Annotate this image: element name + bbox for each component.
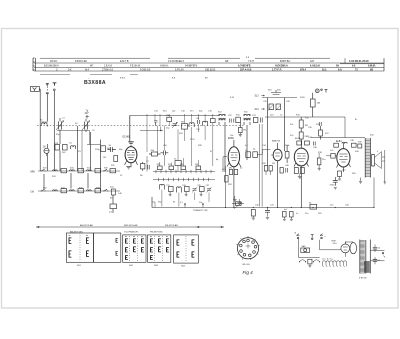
svg-text:Fig 4: Fig 4 [243,270,254,275]
switch cluster lower box B [185,187,190,192]
svg-text:C4: C4 [69,143,72,145]
oscillator coil S10 [189,123,194,127]
svg-text:2758K:6:5: 2758K:6:5 [102,69,114,72]
svg-text:C37: C37 [206,185,211,187]
svg-text:50: 50 [109,145,112,147]
B+ rail from OT down [373,178,375,208]
S14 label with arrow [255,108,265,111]
switch cluster lower box C [200,187,205,192]
dial scale tick text row 3 [56,69,373,72]
svg-text:S64: S64 [181,266,186,268]
svg-text:R15: R15 [305,118,310,120]
OT tap ground [359,178,362,184]
svg-text:25n: 25n [305,213,308,215]
svg-text:C16: C16 [181,111,186,113]
svg-text:C7: C7 [146,161,149,163]
svg-text:A: A [295,232,297,235]
V2 grid vertical wire [223,157,227,207]
svg-text:R1: R1 [78,151,81,153]
svg-text:M:4: M:4 [85,69,90,72]
V2 to V3 coupling wire [257,150,273,155]
bus left drop [151,197,153,208]
coil detail box S62 (sparse) [94,233,121,262]
terminal mark right of lamp [325,89,328,92]
AVC resistor chain right [299,117,309,141]
mains input outline box [298,239,341,257]
components right of IFT1 [254,118,263,123]
coil detail box S64 [148,235,171,267]
tuning capacitor C2 (variable, arrow) [82,119,90,132]
svg-text:8.8: 8.8 [172,78,176,80]
RF cluster resistor R2 [62,145,67,155]
switch cluster box 4 [181,166,186,170]
svg-text:C30: C30 [308,127,313,129]
tube V2 EF89 envelope [227,137,241,207]
tube V3 EABC80 (small) [273,143,282,207]
V3 load boxes [264,166,272,176]
wire x90 vertical [90,132,92,171]
AM antenna terminal (ground-like symbol) [46,83,49,93]
svg-text:S17: S17 [190,111,194,113]
mains switch arcs [299,259,320,267]
svg-text:S2: S2 [75,123,78,125]
trimmer capacitor above C2 [86,115,89,119]
svg-text:B3X88A: B3X88A [84,80,106,86]
svg-text:a: a [325,236,327,238]
svg-text:C34: C34 [262,145,267,147]
svg-text:25n: 25n [322,159,325,161]
small parts below bus near x285 [283,212,294,221]
band switch row MW wire [38,170,120,172]
svg-text:C2: C2 [92,130,95,132]
heater wiring loops [322,258,347,266]
switch cluster lower coil 2 [177,187,182,193]
B+ arrow terminals [382,251,385,261]
band switch row LW wire [38,190,120,192]
tube socket diagram (fig 4) [236,236,259,260]
svg-text:R26: R26 [262,163,267,165]
svg-text:9:B.B.K:E8: 9:B.B.K:E8 [75,60,87,63]
wire from dipole box down [38,89,41,171]
svg-text:7:F:H: 7:F:H [248,60,254,63]
osc feedback component box [174,159,181,166]
svg-text:68p: 68p [119,149,123,151]
svg-text:1M: 1M [103,157,106,159]
switch cluster lower trimmer 2 [207,187,212,192]
MW row box S3 [61,169,67,173]
grid leak resistor R4 vertical [111,156,118,168]
svg-text:1N: 1N [43,147,46,149]
svg-text:EABC80: EABC80 [272,140,281,143]
MW row switch contact 2 [103,169,108,171]
svg-text:S12: S12 [218,112,222,114]
svg-text:220: 220 [270,115,274,117]
svg-text:220p: 220p [95,149,100,151]
svg-text:S16: S16 [244,112,248,114]
ferrite rod / diode circle D1 [43,147,50,157]
IFT1 second coil pair [243,114,251,125]
svg-text:1n: 1n [280,115,282,117]
V5 cathode bypass cap 4700 [330,177,338,190]
T antenna terminal [53,83,57,91]
LW row switch contact 2 [103,189,108,191]
svg-text:R24: R24 [228,184,233,186]
svg-text:TRIMKETT. FM: TRIMKETT. FM [193,210,208,212]
wire from T terminal down [53,91,55,171]
osc mid vertical wires [147,114,213,172]
svg-text:AB:: AB: [225,60,229,63]
svg-text:S41: S41 [110,187,114,189]
switch cluster contact ticks rail1 [156,170,211,173]
svg-text:93E.B2:B:: 93E.B2:B: [205,69,216,72]
svg-text:C22: C22 [228,115,233,117]
AVC narrow pair vertical [260,124,263,207]
svg-text:LW: LW [31,190,35,193]
RF coil S2 [71,146,76,149]
coupling box before V5 [326,154,337,159]
svg-text:B:3:: B:3: [322,69,327,72]
svg-text:5H: 5H [336,65,339,68]
svg-text:2:K.B.89KEE:3: 2:K.B.89KEE:3 [168,60,185,63]
capacitor C8 near tube base [148,165,150,171]
svg-text:S15: S15 [163,111,167,113]
cathode resistor R7 [141,162,145,171]
svg-text:R18: R18 [318,152,323,154]
bus junction dots [225,207,375,208]
coil detail box S65 (sparse) [174,235,199,268]
tube labels row [272,138,301,143]
svg-text:S18: S18 [179,133,183,135]
dimension arrow line over coil boxes [36,224,224,228]
lower left component under LW row [109,204,117,214]
svg-text:94:9BFEF6: 94:9BFEF6 [185,65,198,68]
svg-text:1n: 1n [296,213,298,215]
oscillator top wire [130,114,219,116]
svg-text:2n2: 2n2 [290,135,294,137]
connector between rows x44 [44,173,88,189]
svg-text:25: 25 [120,175,123,177]
svg-text:6:6:: 6:6: [338,69,342,72]
svg-text:F.E.3H:M: F.E.3H:M [130,65,140,68]
svg-text:50: 50 [240,168,243,170]
V2 coupling box [253,152,258,158]
electrolytic can / lamp resistor box [310,93,321,117]
components between V3 and V4: vertical resistor [285,145,289,163]
dial scale tick text row 2 [44,65,376,68]
S13 label with arrow [255,95,265,98]
svg-text:6.AB.5:K: 6.AB.5:K [310,65,320,68]
svg-text:B9--8G: B9--8G [243,264,250,266]
svg-text:R6: R6 [140,175,143,177]
svg-text:1n5: 1n5 [330,150,334,152]
volume potentiometer with arrow [232,202,244,209]
coil detail box S61 [66,233,93,267]
svg-text:68: 68 [197,118,200,120]
svg-text:R20: R20 [352,173,357,175]
tone cap C21 below bus [265,208,270,220]
svg-text:9B: 9B [370,69,373,72]
svg-text:F8:9:K:: F8:9:K: [50,60,58,63]
svg-text:180: 180 [317,103,321,105]
power transformer windings [360,240,371,274]
svg-text:C24: C24 [252,115,257,117]
LW row box S6 [61,189,67,193]
loudspeaker [372,152,382,169]
power section: PU terminal [320,234,327,239]
svg-text:4k7: 4k7 [110,198,114,200]
B+ horizontal bus [152,207,374,209]
svg-text:H:EK2M6.4:: H:EK2M6.4: [275,65,288,68]
V3 right marks [280,168,287,174]
svg-text:SAK: SAK [302,245,307,248]
svg-text:3:: 3: [56,69,58,72]
band switch cluster (oscillator section) rail 1 [153,171,215,173]
svg-text:~220: ~220 [332,243,338,245]
resistor R8 on top wire [166,115,172,121]
svg-text:C18: C18 [208,111,213,113]
svg-text:B4FH:B2:: B4FH:B2: [280,60,291,63]
svg-text:R12: R12 [236,115,241,117]
scattered component value labels [40,90,379,216]
resistor between V4 and V5 [317,153,321,171]
svg-text:MW: MW [31,170,36,173]
MW row coil L2 [70,170,75,171]
svg-text:5p: 5p [253,149,256,151]
svg-text:6,3V: 6,3V [230,97,235,99]
svg-text:8 8: 8 8 [246,57,250,59]
svg-text:82: 82 [173,202,176,204]
svg-text:C28: C28 [286,101,291,103]
switch cluster ground symbols [169,192,203,197]
oscillator box component [181,122,187,130]
svg-text:ECH81: ECH81 [123,137,131,139]
svg-text:1:84.4B;21.25.08: 1:84.4B;21.25.08 [349,60,369,63]
svg-text:H.BH.8:: H.BH.8: [160,65,169,68]
svg-text:2p2: 2p2 [172,111,176,113]
LW row vertical resistor [110,189,115,200]
wires rectifier to transformer top [345,242,353,257]
smoothing cap 1 [373,245,381,253]
switch cluster verticals [152,158,209,208]
svg-text:50: 50 [378,248,381,250]
svg-text:C40: C40 [255,205,260,207]
svg-text:2k2: 2k2 [62,152,66,154]
tuning gang dashed line [37,125,245,127]
switch cluster coil lower 1 [160,184,165,189]
smoothing cap 2 [373,257,381,264]
power section: earth terminal [311,235,314,240]
svg-text:R16: R16 [316,124,321,126]
svg-text:C44: C44 [345,205,350,207]
svg-text:5: 5 [377,151,379,153]
svg-text:9:268:3:B: 9:268:3:B [140,69,151,72]
svg-text:B+: B+ [355,119,358,121]
IFT1 box [236,117,241,122]
components above V5 [334,142,362,148]
osc mid cap C11 [161,151,169,156]
antenna coil S1 [41,122,48,126]
svg-text:E:M:7:B: E:M:7:B [120,60,129,63]
box on bus near x313 [309,202,317,209]
svg-text:S35: S35 [70,168,74,170]
svg-text:EF89: EF89 [228,137,234,140]
resistor to ground under IFT1 [239,128,243,137]
svg-text:S63: S63 [154,265,159,267]
LW row coil L5 [70,190,75,191]
svg-text:1M: 1M [272,163,275,165]
svg-text:C26: C26 [263,101,268,103]
svg-text:R19: R19 [358,142,363,144]
svg-text:15p: 15p [166,128,170,130]
front-end wire loop box [57,130,101,171]
fuse [301,245,310,252]
switch cluster box 1 [158,166,163,170]
svg-text:12p: 12p [199,202,203,204]
svg-text:C38: C38 [350,140,355,142]
svg-text:8:8 8: 8:8 8 [120,78,126,80]
svg-text:B:E.M8:95KH: B:E.M8:95KH [44,65,59,68]
rectifier side ellipse [350,243,357,254]
V2 screen components box [245,150,250,158]
vertical drops from IFT1 area [225,123,247,172]
second IF transformer assembly [262,90,297,166]
osc mid components resistor R10 [149,150,161,156]
svg-text:56k: 56k [243,130,246,132]
svg-text:979.4: 979.4 [300,69,307,72]
svg-text:C14: C14 [154,111,159,113]
svg-text:35F:4:H:B: 35F:4:H:B [240,69,252,72]
switch cluster tiny labels [157,164,211,204]
osc top cluster tiny labels [154,111,213,136]
svg-text:250V: 250V [300,97,305,99]
svg-text:FM-SPOLAR: FM-SPOLAR [165,224,178,227]
svg-text:10n: 10n [330,205,333,207]
coil box labels above [70,230,163,233]
long wire from IFT2 to output stage [265,117,345,138]
IFT1 caps [230,119,234,123]
tube V4 EL84 driver envelope [294,140,309,207]
svg-text:S13: S13 [255,96,260,98]
MW row box S5 [95,169,101,173]
band switch cluster rail 2 [153,179,215,181]
mixer grid components box R3 [101,146,110,152]
svg-text:2.77:F:F:: 2.77:F:F: [272,69,282,72]
LW row coil L4 [53,190,58,191]
svg-text:C1: C1 [62,118,65,120]
RF cluster resistor R1 [55,143,60,150]
V2 cathode resistor boxes [229,168,238,175]
oscillator coil S11 [203,121,208,126]
svg-text:S40: S40 [355,151,359,153]
svg-text:9:K: 9:K [68,69,72,72]
IFT2 trimmer arrows [268,105,281,110]
MW row switch contact 1 [41,169,46,171]
svg-text:S20: S20 [277,90,281,92]
LW row coil L6 [87,190,92,191]
svg-text:C48: C48 [285,165,290,167]
svg-text:R14: R14 [296,115,301,117]
svg-text:6.F9:3H: 6.F9:3H [175,69,184,72]
tone cap C20 below bus [251,210,255,221]
tube V5 EL84 output envelope [336,140,351,172]
svg-text:NSF: NSF [332,241,337,243]
svg-text:4700: 4700 [330,185,336,187]
MW row coil L1 [53,170,58,171]
wires front-end verticals [47,132,60,171]
svg-text:47k: 47k [290,124,293,126]
svg-text:S32: S32 [43,188,47,190]
svg-text:TILL/FRAN-VR.: TILL/FRAN-VR. [124,230,139,233]
dial strip lower marks [88,57,250,80]
svg-text:FM-MOTTAG.: FM-MOTTAG. [150,230,163,233]
wire from AM antenna down to gang line [46,94,48,122]
svg-text:M7.: M7. [90,65,94,68]
svg-text:215V: 215V [190,139,195,141]
switch cluster box 6 [196,166,201,170]
svg-text:6:798EHFE:: 6:798EHFE: [238,65,251,68]
V2 screen resistor vertical [225,176,228,183]
FM dipole antenna box [31,86,40,91]
V5 cathode resistor [338,171,342,180]
capacitor C5 near tube [108,145,116,152]
svg-text:S31: S31 [43,168,47,170]
svg-text:S62: S62 [129,265,134,267]
svg-text:EL84: EL84 [336,140,342,143]
rectifier tube EZ80 [341,242,350,253]
svg-text:S19: S19 [268,90,272,92]
power output wires [370,251,382,261]
svg-text:S39: S39 [104,168,108,170]
svg-text:C46: C46 [118,193,123,195]
svg-text:9.M:M:: 9.M:M: [368,65,376,68]
MW row coil L3 [87,170,92,171]
switch cluster lower box A [169,187,174,192]
svg-text:S61: S61 [77,265,82,267]
V4 cathode boxes [294,168,304,179]
switch cluster contact ticks rail2 [159,178,209,181]
MW row box S4 [78,169,84,173]
osc top cluster vertical wires [155,114,213,128]
svg-text:170: 170 [342,170,346,172]
wire y137 to output transformer [311,137,365,139]
svg-text:4 BV 08: 4 BV 08 [359,277,367,279]
speaker return wire [382,150,386,184]
V1 cathode parts ground [126,167,131,169]
output transformer primary [365,138,370,178]
svg-text:4F7: 4F7 [85,112,90,115]
svg-text:S14: S14 [255,109,260,111]
tuning capacitor C1 (variable, arrow) [56,118,64,132]
svg-text:1M: 1M [305,125,308,127]
wire x100 vertical [100,140,102,192]
svg-text:C36: C36 [313,147,318,149]
svg-text:88: 88 [205,78,208,80]
svg-text:0,1: 0,1 [109,212,113,214]
svg-text:39p: 39p [158,202,162,204]
svg-text:C41: C41 [270,205,275,207]
svg-text:A27: A27 [310,60,315,63]
dial lamp circle [315,89,322,93]
svg-text:a b c d e f g: a b c d e f g [322,258,332,260]
oscillator cap C10 [197,118,200,124]
LW row box S8 [95,189,101,193]
junction dots front end [47,125,87,126]
svg-text:MW-SPOLAR: MW-SPOLAR [124,224,138,227]
svg-text:22k: 22k [111,165,115,167]
trimmer label 4F7 [85,110,90,116]
dial scale tick text row 1 [50,60,369,63]
svg-text:R28: R28 [198,145,203,147]
